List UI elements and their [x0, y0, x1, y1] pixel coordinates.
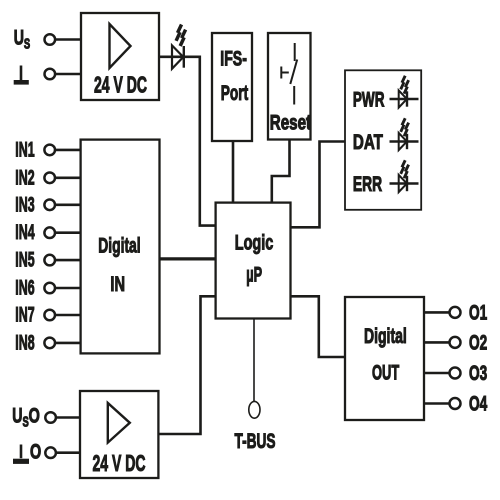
terminal IN6	[44, 283, 55, 294]
terminal IN5	[44, 255, 55, 266]
svg-text:OUT: OUT	[372, 361, 399, 384]
terminal IN7	[44, 310, 55, 321]
wire: 24VDC#1 output through LED down to Logic left	[159, 57, 216, 226]
wire: IN2	[55, 177, 81, 180]
block LED indicators	[345, 70, 421, 210]
LED PWR	[390, 76, 419, 108]
terminal IN3	[44, 200, 55, 211]
wire: IN5	[55, 259, 81, 262]
svg-text:PWR: PWR	[353, 88, 385, 111]
wire: IN1	[55, 149, 81, 152]
block 24 V DC #2	[80, 391, 158, 478]
wire: IN7	[55, 314, 81, 317]
wire: terminal Us+ to 24VDC#1	[55, 38, 81, 41]
svg-text:O4: O4	[469, 393, 487, 416]
LED DAT	[390, 118, 419, 150]
block Digital OUT	[345, 297, 424, 420]
svg-text:U: U	[14, 27, 24, 50]
svg-text:Logic: Logic	[235, 231, 274, 254]
svg-text:IN4: IN4	[15, 221, 34, 244]
terminal GND top	[45, 69, 56, 80]
svg-text:IN7: IN7	[15, 304, 34, 327]
svg-text:Port: Port	[221, 82, 248, 105]
wire: terminal GND-O to 24VDC#2	[56, 451, 80, 454]
block 24 V DC #1	[81, 13, 159, 100]
wire: O3	[424, 372, 449, 375]
svg-text:O: O	[29, 404, 40, 427]
svg-text:T-BUS: T-BUS	[235, 430, 276, 453]
wire: Logic bottom to T-BUS	[253, 319, 255, 402]
wire: Logic right to Digital OUT	[291, 296, 346, 357]
svg-text:IN5: IN5	[15, 249, 34, 272]
svg-text:S: S	[24, 36, 30, 53]
terminal Us	[45, 34, 56, 45]
terminal O4	[450, 398, 461, 409]
wire: IN8	[55, 342, 81, 345]
wire: Reset to Logic top	[272, 140, 290, 203]
LED ERR	[390, 160, 419, 192]
block Reset	[268, 33, 311, 140]
wire: IN3	[55, 204, 81, 207]
wire: Logic left to 24VDC#2 output	[158, 296, 215, 434]
wire: O1	[424, 311, 449, 314]
svg-text:IN1: IN1	[15, 138, 34, 161]
wire: O2	[424, 341, 449, 344]
terminal UsO	[45, 412, 56, 423]
block Digital IN	[81, 140, 160, 354]
terminal IN1	[44, 145, 55, 156]
wire: IN4	[55, 231, 81, 234]
svg-text:O3: O3	[469, 362, 487, 385]
svg-text:IN2: IN2	[15, 166, 34, 189]
wire: Digital IN to Logic	[160, 257, 216, 260]
svg-text:O2: O2	[469, 332, 487, 355]
wire: terminal UsO to 24VDC#2	[56, 416, 80, 419]
terminal T-BUS	[249, 401, 260, 418]
svg-text:IN8: IN8	[15, 331, 34, 354]
ground symbol top	[20, 66, 23, 81]
wire: IFS-Port to Logic top	[232, 141, 235, 203]
reset switch symbol S1	[294, 43, 296, 61]
svg-text:Reset: Reset	[270, 112, 311, 135]
terminal GND-O	[45, 447, 56, 458]
wire: IN6	[55, 287, 81, 290]
wire: Logic right to LED indicator box	[291, 142, 346, 228]
ground symbol bottom	[20, 445, 23, 459]
amplifier triangle U1	[110, 24, 131, 68]
svg-text:ERR: ERR	[353, 173, 382, 196]
terminal O2	[450, 337, 461, 348]
terminal IN2	[44, 173, 55, 184]
terminal IN4	[44, 227, 55, 238]
block Logic uP	[216, 203, 291, 319]
LED D1 bolts	[176, 25, 185, 46]
terminal O3	[450, 368, 461, 379]
svg-text:24 V DC: 24 V DC	[93, 450, 146, 476]
svg-text:24 V DC: 24 V DC	[94, 72, 147, 98]
svg-text:IN: IN	[110, 273, 125, 296]
svg-text:IN3: IN3	[15, 193, 34, 216]
terminal IN8	[44, 338, 55, 349]
svg-text:U: U	[12, 404, 22, 427]
svg-text:O1: O1	[469, 302, 487, 325]
svg-text:Digital: Digital	[98, 235, 140, 258]
svg-text:IN6: IN6	[15, 277, 34, 300]
block IFS-Port	[212, 33, 252, 141]
svg-text:µP: µP	[246, 263, 262, 286]
LED D1 diode	[172, 45, 183, 68]
svg-text:DAT: DAT	[353, 131, 383, 154]
terminal O1	[450, 307, 461, 318]
wire: O4	[424, 402, 449, 405]
amplifier triangle U2	[108, 403, 130, 443]
svg-text:IFS-: IFS-	[220, 47, 247, 70]
svg-text:Digital: Digital	[364, 325, 407, 348]
wire: terminal GND to 24VDC#1	[55, 73, 81, 76]
svg-text:O: O	[30, 441, 41, 464]
